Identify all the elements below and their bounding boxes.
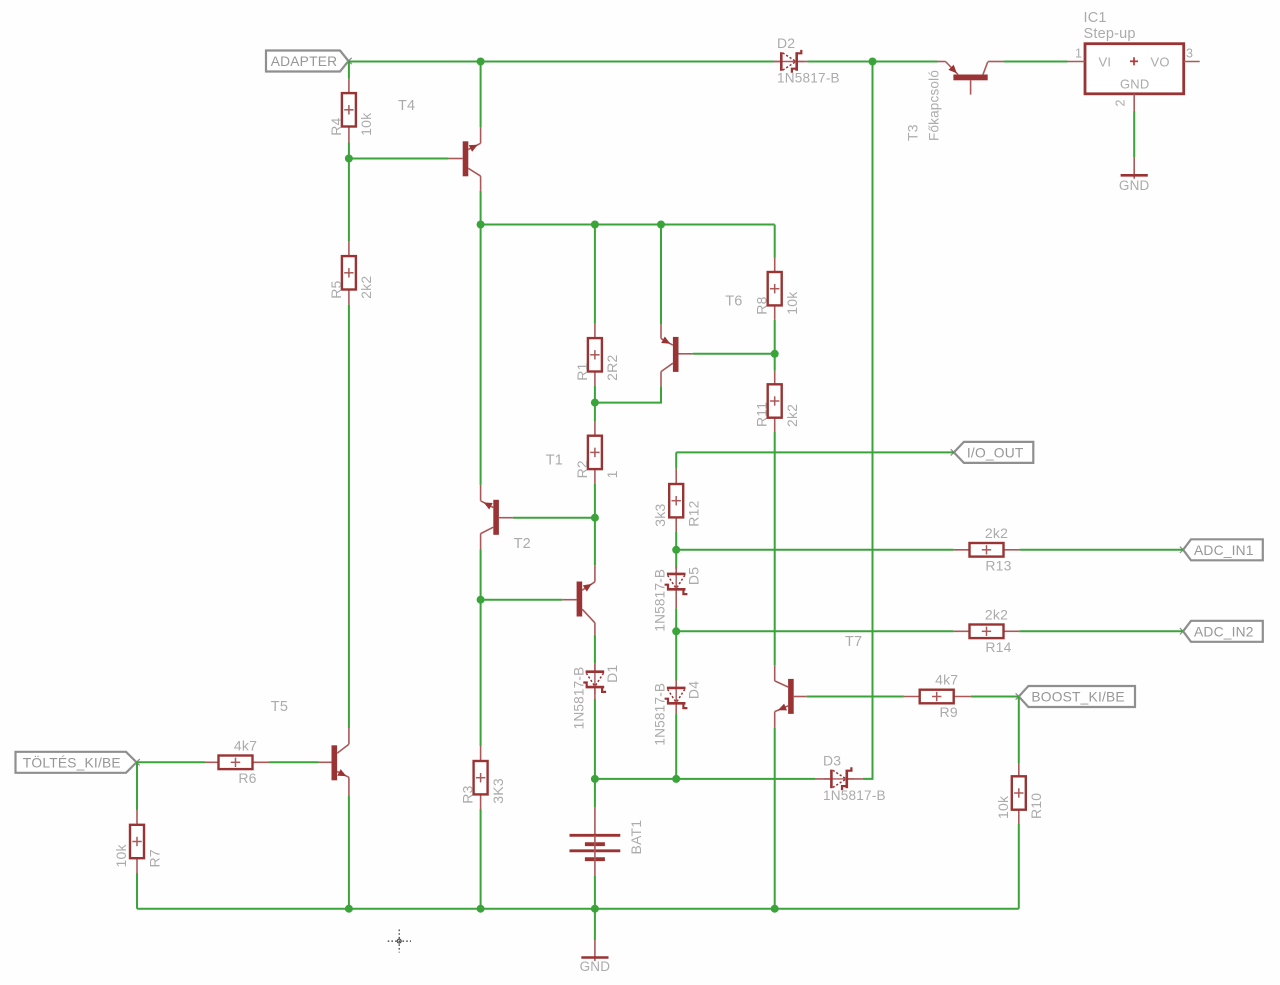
battery BAT1 [570, 807, 644, 875]
wire ADC_IN1 net left [676, 549, 953, 551]
svg-text:Főkapcsoló: Főkapcsoló [927, 70, 942, 141]
pin 3 label [1186, 47, 1193, 61]
junction node E R2/T1 base/T2 [591, 514, 599, 522]
svg-text:T5: T5 [271, 699, 288, 715]
resistor R10 10k [995, 763, 1044, 824]
resistor R11 2k2 [754, 371, 800, 432]
svg-text:VI: VI [1099, 55, 1112, 70]
junction node A [869, 58, 877, 66]
net label ADC_IN2 [1180, 621, 1263, 642]
svg-text:1N5817-B: 1N5817-B [823, 788, 886, 803]
junction bus2/R1 [591, 221, 599, 229]
svg-text:1: 1 [1075, 47, 1082, 61]
net label I/O_OUT [951, 442, 1034, 463]
svg-text:ADC_IN1: ADC_IN1 [1194, 543, 1254, 558]
wire node A to T3 emitter [873, 61, 938, 63]
svg-text:4k7: 4k7 [234, 738, 257, 754]
resistor R5 2k2 [328, 241, 374, 304]
junction node H R12/D5/ADC_IN1 [672, 546, 680, 554]
wire node C to T6 collector [595, 386, 661, 402]
wire R2 top [594, 403, 596, 421]
junction ADAPTER/T4 [477, 58, 485, 66]
svg-text:I/O_OUT: I/O_OUT [967, 446, 1024, 461]
svg-text:2: 2 [1114, 99, 1128, 106]
wire T6 base to node D [693, 353, 775, 355]
transistor T4 [449, 127, 481, 191]
wire R1 bottom to node C [594, 386, 596, 403]
wire ADC_IN2 net right [1019, 630, 1183, 632]
wire R7 bottom to bus [136, 873, 138, 909]
svg-text:R13: R13 [985, 557, 1011, 573]
svg-text:10k: 10k [113, 844, 129, 868]
svg-text:R5: R5 [328, 280, 344, 298]
wire R9 to BOOST flag [971, 696, 1019, 698]
resistor R6 4k7 [206, 738, 269, 786]
junction bus/T7 emitter [771, 905, 779, 913]
wire node A down to D3 [863, 62, 873, 779]
resistor R1 2R2 [574, 324, 620, 386]
wire node B down to R5 [348, 159, 350, 242]
svg-text:1N5817-B: 1N5817-B [653, 569, 668, 632]
svg-text:1: 1 [604, 470, 620, 478]
net label ADC_IN1 [1180, 539, 1263, 560]
wire node G to BAT1 [594, 779, 596, 807]
wire node G to node J to D3 [595, 778, 815, 780]
svg-text:BOOST_KI/BE: BOOST_KI/BE [1031, 690, 1124, 705]
svg-text:IC1: IC1 [1084, 10, 1107, 26]
svg-text:1N5817-B: 1N5817-B [777, 71, 840, 86]
wire R6 to T5 base [269, 761, 319, 763]
wire second bus [481, 224, 775, 226]
net label ADAPTER [266, 51, 352, 72]
junction node C R1/R2/T6 collector [591, 399, 599, 407]
resistor R8 10k [754, 258, 800, 320]
junction node G D1/BAT1 [591, 775, 599, 783]
svg-text:3: 3 [1186, 47, 1193, 61]
junction bus/R3 [477, 905, 485, 913]
wire D4 to node J [675, 713, 677, 779]
wire D5 to node I [675, 608, 677, 631]
origin cross mark [388, 930, 411, 953]
resistor R2 1 [574, 421, 620, 484]
IC U1 step-up converter IC1 [1068, 44, 1200, 111]
wire D2 to node A [808, 61, 873, 63]
wire ADC_IN2 net left [676, 630, 953, 632]
resistor R13 2k2 [953, 525, 1019, 573]
svg-text:2k2: 2k2 [985, 525, 1008, 541]
svg-text:T3: T3 [905, 124, 921, 141]
junction node D R8/R11/T6 base [771, 350, 779, 358]
svg-text:2k2: 2k2 [358, 276, 374, 299]
wire ADC_IN1 net right [1019, 549, 1183, 551]
wire T5 emitter down [348, 795, 350, 908]
svg-text:T6: T6 [725, 294, 742, 310]
wire IC1 pin2 to GND [1133, 111, 1135, 158]
wire R3 bottom to bus [480, 809, 482, 909]
svg-text:GND: GND [580, 959, 611, 974]
wire T2 emitter to D1 [594, 635, 596, 664]
label T7 [845, 634, 862, 650]
svg-text:R14: R14 [985, 639, 1011, 655]
svg-text:R10: R10 [1028, 793, 1044, 819]
diode D5 1N5817-B [653, 566, 702, 631]
junction bus/BAT1/GND [591, 905, 599, 913]
wire R1 top [594, 225, 596, 324]
wire BAT1 bottom to bus [594, 875, 596, 909]
svg-text:1N5817-B: 1N5817-B [571, 667, 586, 730]
svg-text:R1: R1 [574, 362, 590, 380]
resistor R3 3K3 [460, 746, 506, 809]
wire node H to D5 [675, 550, 677, 569]
wire node D to R11 [774, 354, 776, 371]
svg-text:2k2: 2k2 [985, 607, 1008, 623]
transistor T7 [775, 665, 807, 728]
svg-text:3K3: 3K3 [490, 778, 506, 804]
svg-text:BAT1: BAT1 [628, 820, 644, 855]
junction node B R4/R5/T4 base [345, 155, 353, 163]
wire D1 to node G [594, 699, 596, 779]
svg-text:Step-up: Step-up [1084, 26, 1136, 42]
wire node F down to R3 [480, 600, 482, 746]
wire node B to T4 base [349, 158, 449, 160]
svg-text:R12: R12 [686, 500, 702, 526]
ground GND below IC1 [1119, 158, 1150, 193]
transistor T5 [319, 728, 349, 795]
wire R11 down to T7 collector [774, 432, 776, 665]
wire T1 collector down to node F [480, 550, 482, 600]
resistor R12 3k3 [652, 469, 701, 532]
wire R2 bottom to node E [594, 484, 596, 518]
svg-text:D3: D3 [823, 752, 841, 768]
svg-text:R4: R4 [328, 117, 344, 135]
wire R4 bottom to node B [348, 143, 350, 159]
diode D3 1N5817-B [815, 752, 886, 803]
wire T4 collector down [480, 191, 482, 225]
svg-text:D2: D2 [777, 35, 795, 51]
svg-text:10k: 10k [784, 291, 800, 315]
label T5 [271, 699, 288, 715]
svg-text:D5: D5 [686, 567, 702, 585]
diode D4 1N5817-B [653, 680, 702, 745]
wire TÖLTÉS flag to R6 [137, 761, 206, 763]
label T3 Főkapcsoló [905, 70, 942, 141]
svg-text:T1: T1 [546, 453, 563, 469]
wire T7 base to R9 [807, 696, 904, 698]
junction bus2/T4 collector [477, 221, 485, 229]
wire bus to GND symbol [594, 909, 596, 940]
svg-text:R8: R8 [754, 296, 770, 314]
net label BOOST_KI/BE [1016, 686, 1135, 707]
svg-text:R6: R6 [238, 770, 256, 786]
wire bottom bus [137, 908, 1019, 910]
wire left column to T1 emitter [480, 225, 482, 485]
svg-text:R11: R11 [754, 402, 770, 427]
wire T3 collector to IC1 pin1 [1003, 61, 1067, 63]
transistor T2 [562, 565, 595, 634]
svg-text:TÖLTÉS_KI/BE: TÖLTÉS_KI/BE [23, 754, 121, 771]
label T6 [725, 294, 742, 310]
svg-text:VO: VO [1151, 55, 1170, 70]
pin 1 label [1075, 47, 1082, 61]
svg-text:R7: R7 [146, 849, 162, 867]
wire BOOST down to R10 [1018, 697, 1020, 764]
wire top bus ADAPTER to D2 [349, 61, 775, 63]
label T1 [546, 453, 563, 469]
wire T4 emitter up [480, 62, 482, 128]
transistor T3 [938, 62, 1004, 95]
svg-text:GND: GND [1119, 178, 1150, 193]
ground GND below BAT1 [580, 940, 611, 974]
junction bus2/T6 emitter [657, 221, 665, 229]
resistor R9 4k7 [904, 672, 971, 720]
wire R8 top [774, 225, 776, 258]
transistor T6 [661, 324, 693, 386]
junction node J D4 [672, 775, 680, 783]
junction node F T1/T2 base/R3 [477, 596, 485, 604]
wire I/O corner down to R12 [675, 452, 677, 468]
wire I/O_OUT net [676, 451, 954, 453]
svg-text:2R2: 2R2 [604, 355, 620, 381]
resistor R7 10k [113, 810, 162, 873]
svg-text:R9: R9 [940, 704, 958, 720]
wire R12 bottom to node H [675, 532, 677, 550]
svg-text:D4: D4 [686, 681, 702, 699]
wire T1 base to node E [513, 517, 595, 519]
svg-text:T7: T7 [845, 634, 862, 650]
wire node F to T2 base [481, 599, 563, 601]
net label TÖLTÉS_KI/BE [16, 752, 140, 773]
svg-text:T4: T4 [398, 98, 415, 114]
wire T6 emitter up [660, 225, 662, 325]
label T2 [514, 536, 531, 552]
svg-text:10k: 10k [995, 795, 1011, 819]
wire T7 emitter down [774, 728, 776, 909]
wire R4 top [348, 62, 350, 79]
wire R10 bottom to bus [1018, 824, 1020, 909]
diode D2 1N5817-B [774, 35, 840, 86]
label T4 [398, 98, 415, 114]
resistor R14 2k2 [953, 607, 1019, 655]
wire node I to D4 [675, 631, 677, 680]
resistor R4 10k [328, 79, 374, 143]
svg-text:T2: T2 [514, 536, 531, 552]
junction node I D5/D4/ADC_IN2 [672, 627, 680, 635]
svg-text:ADAPTER: ADAPTER [271, 54, 338, 69]
svg-text:2k2: 2k2 [784, 404, 800, 427]
wire R5 to T5 collector [348, 305, 350, 728]
svg-text:10k: 10k [358, 112, 374, 136]
svg-text:R3: R3 [460, 785, 476, 803]
wire R8 bottom to node D [774, 320, 776, 354]
label IC1 Step-up [1084, 10, 1136, 42]
svg-text:4k7: 4k7 [935, 672, 958, 688]
wire TÖLTÉS down to R7 [136, 762, 138, 810]
diode D1 1N5817-B [571, 664, 620, 730]
svg-text:R2: R2 [574, 460, 590, 478]
transistor T1 [481, 485, 513, 550]
svg-text:ADC_IN2: ADC_IN2 [1194, 625, 1254, 640]
svg-text:1N5817-B: 1N5817-B [653, 683, 668, 746]
junction bus/T5 emitter [345, 905, 353, 913]
pin 2 label [1114, 99, 1128, 106]
svg-text:3k3: 3k3 [652, 504, 668, 527]
svg-text:GND: GND [1120, 77, 1150, 92]
wire node E to T2 collector [594, 518, 596, 566]
svg-text:D1: D1 [604, 665, 620, 683]
